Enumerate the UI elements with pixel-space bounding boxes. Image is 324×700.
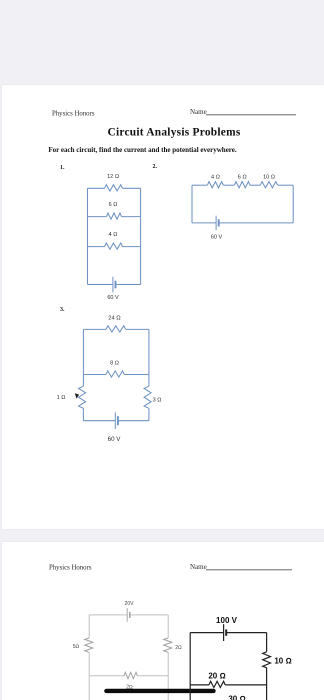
svg-text:12 Ω: 12 Ω (107, 174, 119, 180)
circuit 2: battery 60 V (216, 216, 219, 230)
circuit 5 (black): right wire with resistor 10 ohm (263, 633, 271, 700)
circuit 1: left wire (87, 188, 89, 284)
circuit 1: bottom wire (88, 284, 141, 286)
svg-text:10 Ω: 10 Ω (274, 657, 291, 666)
circuit 3: left wire with resistor 1 ohm (79, 329, 86, 420)
circuit 2: resistor 10 ohm (260, 182, 277, 188)
circuit 5 (black): battery 100 V (224, 624, 227, 641)
circuit 3: right wire with resistor 3 ohm (144, 329, 151, 420)
circuit 2: bottom wire (192, 222, 293, 224)
svg-text:2Ω: 2Ω (175, 645, 182, 651)
circuit 4 (gray): left wire with resistor 5 ohm (85, 615, 93, 700)
svg-text:24 Ω: 24 Ω (108, 315, 121, 321)
svg-text:10 Ω: 10 Ω (263, 175, 275, 181)
svg-text:Physics Honors: Physics Honors (52, 111, 95, 118)
svg-text:100 V: 100 V (216, 616, 238, 625)
circuit 1: resistor 4 ohm branch wire (88, 243, 141, 249)
circuit 3: bottom wire (83, 420, 148, 422)
circuit 5 (black): top wire (190, 632, 266, 634)
svg-text:1.: 1. (60, 165, 65, 171)
circuit 2: resistor 4 ohm (207, 182, 223, 188)
circuit 4 (gray): battery 20V (127, 608, 130, 622)
svg-text:20 Ω: 20 Ω (208, 671, 225, 680)
circuit 1: battery 60 V (113, 277, 116, 293)
worksheet page 2 (2, 542, 324, 700)
svg-text:5Ω: 5Ω (73, 644, 80, 650)
svg-text:1 Ω: 1 Ω (57, 395, 66, 401)
circuit 4 (gray): right wire with resistor 2 ohm (164, 615, 172, 700)
svg-text:20V: 20V (125, 601, 135, 607)
svg-text:30 Ω: 30 Ω (228, 695, 245, 700)
circuit 2: top wire (192, 184, 293, 186)
svg-text:60 V: 60 V (211, 235, 223, 241)
svg-text:4 Ω: 4 Ω (109, 232, 118, 238)
svg-text:Circuit Analysis Problems: Circuit Analysis Problems (107, 126, 240, 138)
circuit 4 (gray): middle wire with resistor 2 ohm (89, 672, 168, 678)
worksheet page 1 (2, 85, 324, 529)
thick marker line annotation (106, 689, 213, 693)
circuit 1: right wire (140, 188, 142, 284)
circuit 1: top wire (88, 187, 141, 189)
svg-text:8 Ω: 8 Ω (110, 361, 119, 367)
svg-text:Physics Honors: Physics Honors (49, 565, 92, 572)
circuit 3: battery 60 V (115, 412, 118, 429)
circuit 5 (black): left wire (189, 633, 191, 700)
svg-text:60 V: 60 V (107, 295, 119, 301)
svg-text:6 Ω: 6 Ω (109, 202, 118, 208)
circuit 4 (gray): top wire (89, 614, 168, 616)
circuit 1: resistor 6 ohm branch wire (88, 213, 141, 219)
svg-text:2.: 2. (153, 164, 158, 170)
circuit 2: right wire (292, 185, 294, 223)
circuit 2: left wire (191, 185, 193, 223)
circuit 3: resistor 8 ohm middle wire (83, 371, 148, 377)
circuit 3: resistor 24 ohm on top wire (106, 326, 126, 332)
svg-text:60 V: 60 V (108, 436, 122, 443)
circuit 3: top wire (83, 328, 148, 330)
circuit 5 (black): middle wire with resistor 20 ohm (190, 681, 266, 687)
name line page 2 (190, 563, 292, 571)
name line page 1 (190, 108, 296, 116)
annotation arrowhead near resistor 1 ohm (75, 393, 79, 399)
circuit 1: resistor 12 ohm on top wire (105, 185, 123, 191)
svg-text:Name: Name (190, 563, 207, 571)
svg-text:Name: Name (190, 108, 207, 116)
svg-text:For each circuit, find the cur: For each circuit, find the current and t… (48, 146, 237, 154)
svg-text:3 Ω: 3 Ω (153, 398, 162, 404)
svg-text:3.: 3. (60, 307, 65, 313)
svg-text:4 Ω: 4 Ω (211, 175, 220, 181)
svg-text:6 Ω: 6 Ω (238, 175, 247, 181)
circuit 2: resistor 6 ohm (234, 182, 250, 188)
